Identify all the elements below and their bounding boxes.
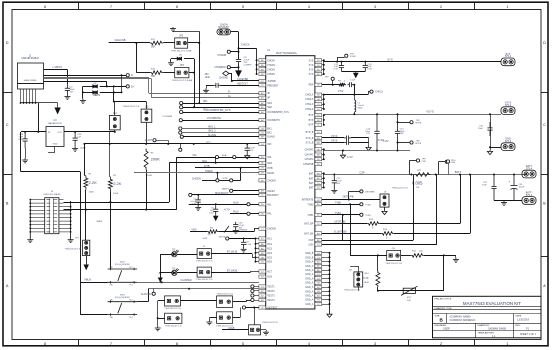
wire PAL [230,213,247,215]
wire ALART stub [156,140,168,142]
junction LED arrow [159,281,161,283]
wire VBUS to SW3 [80,314,107,316]
svg-text:TSW-102-07-T-S: TSW-102-07-T-S [392,187,408,189]
junction GND 252.9 [329,252,331,254]
test point CHGMBCK [227,66,230,69]
wire VBUS cap drop [67,70,69,85]
wire J12 feed row [114,101,146,103]
wire CHGPG gnd stub [342,151,344,155]
switch SW2 [108,268,138,284]
junction BAT 173.4 [323,172,325,174]
jumper J15 [387,250,401,260]
svg-text:VIO: VIO [206,141,210,145]
wire CHGLX stub 109.0 [322,108,324,110]
wire CHGLX tp elbow [368,92,370,95]
capacitor C6 [213,206,218,215]
svg-text:INTREATE: INTREATE [302,199,314,202]
capacitor C7 [233,222,238,230]
connector SYS banana [501,58,515,66]
svg-text:DETMRB: DETMRB [365,191,375,193]
svg-text:GND_A: GND_A [305,273,314,276]
wire JP2 out [188,42,200,44]
svg-text:<COMPANY ADDRESS>: <COMPANY ADDRESS> [449,319,476,322]
svg-text:SDA: SDA [222,154,227,157]
svg-text:VIOTEST: VIOTEST [267,307,278,310]
svg-text:BK1: BK1 [267,128,272,131]
svg-text:CHGIN8: CHGIN8 [219,78,228,80]
junction CHGLX pin 94.6 [323,94,325,96]
svg-text:GND_A: GND_A [305,295,314,298]
wire GND stub 265.8 [322,265,330,267]
test point SAKEY [230,189,233,192]
junction CHGPG c15 [397,150,399,152]
grid tick left 1 [3,92,12,94]
wire VSYS long [324,114,501,116]
junction C19 [364,61,366,63]
svg-text:TEST1: TEST1 [267,286,275,289]
svg-text:J12: J12 [113,112,118,115]
wire BK2 [182,132,259,134]
svg-text:D: D [543,41,546,45]
svg-text:NC7: NC7 [267,271,272,274]
wire DETMRB elbow [348,191,350,199]
grid tick top 6 [408,2,410,9]
grid tick right 1 [541,92,548,94]
svg-text:2.5V: 2.5V [368,69,373,71]
svg-text:NC4: NC4 [267,252,272,255]
svg-text:BATT: BATT [455,170,462,174]
connector J3 CHGIN_BATTERY [217,29,231,35]
svg-text:BK1 2: BK1 2 [208,129,216,133]
title block [433,296,542,338]
wire thm loop down [443,255,445,290]
svg-text:SADMAN SAKIB: SADMAN SAKIB [488,328,506,331]
wire VIOTEST [246,307,259,309]
svg-text:575-4: 575-4 [526,167,533,170]
svg-text:ALART: ALART [145,139,153,142]
grid tick top 4 [276,2,278,9]
wire tp CSN elbow [439,161,446,163]
svg-text:NC3: NC3 [267,247,272,250]
svg-text:GND_A: GND_A [305,299,314,302]
wire gnd JP2 drop [199,31,201,43]
wire J8B left [158,318,165,320]
svg-text:PAL8: PAL8 [233,211,239,214]
svg-text:VBUS: VBUS [93,93,100,97]
wire LED D3 to J6 [177,272,197,274]
wire J11 out jog [240,308,242,318]
diode D5b [95,91,97,94]
resistor R9 [338,83,346,87]
svg-text:6.3V: 6.3V [209,213,214,215]
junction BAT 182.9 [323,182,325,184]
junction CHGLX pin 104.2 [323,103,325,105]
test point TVB0 [360,203,363,206]
svg-text:CHGND: CHGND [267,228,276,231]
junction L1 VSYS [353,113,355,115]
wire AVL stub to pin [250,204,259,206]
test point TVB1 [360,213,363,216]
svg-text:TSW-103-07-T-S: TSW-103-07-T-S [344,290,360,292]
junction header row4 R5 [145,209,147,211]
svg-text:BAT: BAT [309,177,314,180]
wire CHGEN seg1 [219,180,229,182]
test point CHGLX [370,90,373,93]
svg-text:BAT_BP: BAT_BP [304,223,313,226]
svg-text:MAX77643ADEFD+: MAX77643ADEFD+ [276,52,298,55]
svg-text:3K: 3K [267,92,270,95]
wire BAT stub 178.3 [322,178,324,180]
junction NC 248.4 [255,247,257,249]
wire D6 gnd stub [170,59,172,62]
wire U3 out [64,131,115,133]
svg-text:TVB0: TVB0 [307,203,314,206]
svg-text:7: 7 [110,342,112,346]
wire C35 patch [490,114,492,122]
svg-text:BYP8-: BYP8- [416,123,423,125]
wire GND stub 282.6 [322,282,330,284]
wire J7 to J9 [181,300,217,302]
wire diamond to corner [229,73,232,75]
ground C7 [233,230,239,234]
wire J12 bottom stub [114,130,116,132]
svg-text:16V: 16V [70,91,74,93]
svg-text:1: 1 [507,342,509,346]
svg-text:CHGIN: CHGIN [267,64,275,67]
svg-text:NC6: NC6 [267,261,272,264]
svg-text:FLASHEN: FLASHEN [180,279,191,282]
junction pin6-D4 [106,85,108,87]
junction GND 304.0 [329,303,331,305]
svg-text:3: 3 [374,5,376,9]
test point CHGEN b [230,179,233,182]
resistor R14 [381,232,394,236]
junction J12 feed [113,101,115,103]
svg-text:VCOMM8: VCOMM8 [162,116,172,118]
wire CHGEN seg0 [202,180,216,182]
svg-text:SLAVE: SLAVE [267,136,275,139]
junction gnd banana [489,146,491,148]
ground thm [453,258,459,263]
junction VBUS row [121,91,123,93]
grid tick left 2 [3,174,12,176]
svg-text:GND_A: GND_A [305,265,314,268]
ground J11 [206,320,212,325]
junction JP2 out [198,42,200,44]
wire LED D2 to J5 [177,254,197,256]
ground C13 [331,189,337,193]
wire SYS long [324,61,501,63]
junction GND 278.4 [329,277,331,279]
svg-text:CSP: CSP [422,161,427,163]
power arrow C6 [215,215,217,216]
svg-text:SDA: SDA [202,160,207,163]
svg-text:WTR: WTR [223,178,228,180]
junction BAT 187.5 [323,187,325,189]
resistor R10 [376,271,380,287]
svg-text:TSW-102-07-T-S: TSW-102-07-T-S [165,326,182,328]
junction BAT cap [333,174,335,176]
wire CHGPG long [324,150,410,152]
wire C16 out [351,137,369,139]
thermistor RT1 [401,286,418,295]
wire VBUS from USB [44,69,68,71]
wire CSN kelvin [322,244,437,246]
capacitor C36 battery [511,175,518,201]
test point CHGEN a [216,179,219,182]
junction VIO R1 [83,143,85,145]
junction NC 243.9 [255,243,257,245]
svg-text:VCOMMSTBX_SYS: VCOMMSTBX_SYS [205,108,230,112]
wire GND stub 304.0 [322,304,330,306]
junction REF corner [353,84,355,86]
jumper J13 [141,109,152,122]
wire thm gnd stub [455,255,457,257]
svg-text:CVDEVBB: CVDEVBB [237,79,248,81]
junction VIO R2 [109,143,111,145]
power arrow LED bus [158,278,163,283]
junction LED bus [159,272,161,274]
svg-text:12/10/2019: 12/10/2019 [517,319,530,322]
junction CHGIN split [135,42,137,44]
ground C20 [72,147,78,152]
wire BAKROUT [192,194,259,196]
junction GND 287.1 [329,286,331,288]
test point NC1 [226,237,229,240]
grid tick bottom 7 [474,340,476,346]
grid tick top 7 [474,2,476,9]
wire J13 bottom stub [146,122,148,144]
svg-text:BK1 1: BK1 1 [208,125,216,129]
wire SLAVE [184,136,259,138]
junction C18 [24,131,26,133]
svg-text:JVPINB: JVPINB [267,80,276,83]
wire LED gnd bus [160,254,162,277]
capacitor C6 drop [215,204,217,206]
wire GND stub 270.0 [322,270,330,272]
resistor R16 [150,71,163,75]
svg-text:BAT: BAT [309,182,314,185]
test point BK1 [179,127,182,130]
svg-text:INTB: INTB [267,167,273,170]
svg-text:GND_A: GND_A [305,303,314,306]
svg-text:SYS: SYS [309,68,314,71]
junction CHGLX pin 109.0 [323,108,325,110]
svg-text:CSP: CSP [308,239,313,242]
wire CVDEVBB [232,80,259,82]
svg-text:BAKROUT: BAKROUT [267,194,279,197]
wire CHGCK vertical [238,32,240,59]
junction CHGMB [238,51,240,53]
wire header row4 long [64,209,177,211]
jumper JP1 [83,240,90,255]
svg-text:6: 6 [176,5,178,9]
svg-text:TEST3: TEST3 [267,295,275,298]
jumper J8B [165,313,182,323]
wire SYS_B row2 [322,142,344,144]
wire SCL to SDA jog [215,157,217,163]
wire CHGLX stub 99.1 [322,99,324,101]
test point REF [331,77,334,80]
junction GND 299.7 [329,299,331,301]
wire TEST2 stub [254,290,259,292]
svg-text:SDA: SDA [267,162,272,165]
svg-text:1: 1 [507,5,509,9]
junction NC 252.9 [255,252,257,254]
svg-text:2: 2 [440,5,442,9]
jumper J7 [165,296,181,306]
svg-text:TSW-102-07-T-S-RA: TSW-102-07-T-S-RA [172,79,193,82]
wire GND stub 278.4 [322,278,330,280]
svg-text:TEST4: TEST4 [267,299,275,302]
wire R10 bottom lead [377,287,379,291]
header J4 right bus [70,201,72,239]
capacitor C9 [348,82,354,87]
wire J16 top [358,266,360,272]
junction tp BYP upper [397,121,399,123]
junction VBUS drop [113,91,115,93]
junction J8B left [157,317,159,319]
svg-text:1608: 1608 [147,175,153,177]
resistor R5 [144,149,148,171]
svg-text:8: 8 [44,342,46,346]
capacitor C21 VIO [245,144,250,155]
test point CSN [445,160,448,163]
wire REF drop [354,85,356,95]
wire J8 bottom [384,207,386,210]
wire GND stub 299.7 [322,299,330,301]
test point SD1 [180,102,183,105]
svg-text:SCL: SCL [267,156,272,159]
wire C16 C17 join [368,138,370,146]
wire VIO rail left [20,132,22,172]
svg-text:PROJECT TITLE:: PROJECT TITLE: [435,299,453,301]
wire GBAT row [322,233,381,235]
wire R11 out [424,255,456,257]
junction NC 261.6 [255,261,257,263]
grid tick top 5 [342,2,344,9]
svg-text:BAKROUT: BAKROUT [215,191,229,195]
svg-text:VCOMMTH: VCOMMTH [267,119,280,122]
svg-text:CHGUSB: CHGUSB [114,38,125,42]
wire R2 top jog [109,144,111,177]
svg-text:10V: 10V [366,133,370,135]
svg-text:PRESENT: PRESENT [267,84,279,87]
junction J12 bottom [114,131,116,133]
svg-text:EVQ-Q2K03W: EVQ-Q2K03W [115,264,130,266]
wire SYS stub 60.3 [322,60,324,62]
svg-text:16V: 16V [337,183,341,185]
svg-text:GND: GND [53,144,58,146]
wire shield bus [21,102,58,104]
wire THM row [350,255,387,257]
test point D+ [126,85,129,88]
svg-text:SHEET 1 OF 1: SHEET 1 OF 1 [520,333,537,336]
jumper J9 [217,296,233,308]
capacitor C4 [196,197,201,206]
wire J7 gnd bus [157,301,159,326]
svg-text:CHGMB: CHGMB [217,55,226,57]
wire NC stub 252.9 [256,252,259,254]
svg-text:56K: 56K [151,46,156,49]
svg-text:2.5V: 2.5V [338,89,344,93]
junction VIO cap [246,143,248,145]
svg-text:VSYS: VSYS [426,110,434,114]
junction D- row [121,74,123,76]
junction SDA [215,162,217,164]
svg-text:6.3V: 6.3V [347,155,353,159]
junction VIO R5 [145,143,147,145]
wire J6 out jog [250,272,252,273]
junction VSYS right [489,113,491,115]
wire GND stub 287.1 [322,287,330,289]
ground C4 [195,206,201,211]
inductor L1 [354,100,356,112]
wire diode left vertical [82,86,84,98]
wire bSTAT out [380,223,460,225]
resistor R13 [367,222,380,226]
test point TEST4 [251,298,254,301]
svg-text:BYP8: BYP8 [416,143,422,145]
junction VIOTEST [253,307,255,309]
wire CHGND row left [190,231,207,233]
grid tick top 1 [78,2,80,9]
svg-text:TSW-102-07-T-S: TSW-102-07-T-S [164,308,181,310]
capacitor C11 [339,62,344,72]
test point FLASH0N [152,292,155,295]
jumper J11 [217,312,233,324]
wire GBAT up [470,175,472,234]
junction R11 out [443,254,445,256]
svg-text:6.3V: 6.3V [378,138,384,142]
connector BATT banana [522,170,536,178]
svg-text:TVB0: TVB0 [335,201,342,204]
wire GND stub 295.5 [322,295,330,297]
svg-text:SYS8: SYS8 [350,56,356,58]
wire C9 out [353,84,356,86]
svg-text:CHGPG: CHGPG [305,158,314,161]
svg-text:TVB1: TVB1 [335,212,342,215]
wire J15 out [401,255,411,257]
wire LED D2 anode [160,254,171,256]
wire SD2 [183,107,259,109]
svg-text:USB MB-5S3B-R: USB MB-5S3B-R [21,58,39,60]
svg-text:0805: 0805 [358,108,364,110]
test point BATT [446,160,449,163]
svg-text:1608: 1608 [113,193,119,195]
svg-text:FLASH0N: FLASH0N [141,293,152,296]
svg-text:D-: D- [228,91,231,93]
svg-text:DRAWING TITLE:: DRAWING TITLE: [435,307,453,310]
ground above JP2 [170,27,176,31]
wire CHGND jog [254,229,256,232]
wire batt caps bottom [494,200,522,202]
wire VBUS drop to J12 [113,92,115,101]
capacitor C3 [65,84,70,94]
junction GND 282.6 [329,282,331,284]
capacitor C35 [487,122,492,136]
junction INTB chgen [240,167,242,169]
junction GND 291.3 [329,290,331,292]
wire INTB [195,167,259,169]
junction TIMER [216,172,218,174]
junction R10 top [377,254,379,256]
svg-text:JP2: JP2 [179,34,184,37]
wire VSYS gnd drop [490,114,492,150]
test point SLAVE [180,135,183,138]
wire NC stub 243.9 [256,243,259,245]
wire CHGLX out [324,94,368,96]
